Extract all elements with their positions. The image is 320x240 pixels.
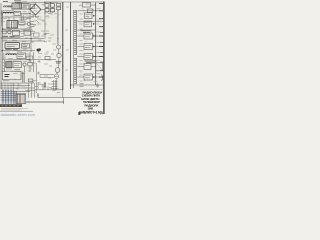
transformer core xyxy=(73,10,75,88)
value labels right column xyxy=(94,9,101,82)
dark label rows xyxy=(2,36,18,49)
resistor R4 xyxy=(3,30,7,34)
hatch marks xyxy=(51,80,59,90)
winding W1 xyxy=(74,10,76,55)
choke L5 xyxy=(44,82,46,89)
secondary vertical xyxy=(70,2,72,89)
dense terminal block bottom-left xyxy=(1,89,26,104)
inductor L2 xyxy=(6,54,16,55)
label smudges scattered xyxy=(2,1,83,92)
header label right xyxy=(81,31,92,33)
module A7 long box xyxy=(3,71,22,80)
label xyxy=(39,84,45,86)
wire xyxy=(57,10,60,45)
box A5 hatched xyxy=(6,62,12,68)
transformer T2 xyxy=(7,21,18,29)
resistor R7 xyxy=(28,79,33,82)
box A1 xyxy=(13,30,20,35)
capacitor C6 xyxy=(50,8,54,11)
box D4 xyxy=(84,33,93,39)
label xyxy=(19,18,30,20)
switch SA1 xyxy=(30,15,39,24)
inductor L1 xyxy=(3,12,13,13)
caption underline xyxy=(0,110,33,112)
pin lines xyxy=(1,90,3,104)
wire row2 xyxy=(78,21,105,23)
box U1 xyxy=(22,4,30,10)
wire xyxy=(29,2,46,17)
mains label xyxy=(31,25,37,27)
wire row mid xyxy=(35,89,63,91)
tube VL1 xyxy=(55,68,60,73)
label xyxy=(4,53,6,59)
lamp H3 xyxy=(23,63,26,66)
twisted pair xyxy=(3,60,5,72)
input coil L4 xyxy=(4,6,13,7)
wire row3 xyxy=(78,29,96,31)
caption text xyxy=(1,109,28,111)
wire xyxy=(3,14,34,60)
box texts xyxy=(15,5,28,56)
lamp H2 xyxy=(8,30,11,33)
resistor R8 xyxy=(27,56,33,59)
wire pair down from lamp row xyxy=(22,14,24,21)
plus labels xyxy=(44,2,51,13)
wire row xyxy=(1,37,44,39)
connector box xyxy=(16,94,26,103)
diode marks xyxy=(93,15,95,78)
transistor VT2 xyxy=(57,53,61,57)
box A3 xyxy=(5,43,20,49)
label w marks xyxy=(80,14,83,75)
resistor R1 xyxy=(30,4,34,8)
ink blob xyxy=(36,48,41,51)
svg-text:dataradio-sxem.com: dataradio-sxem.com xyxy=(1,113,35,117)
box A2 xyxy=(24,30,31,35)
box text details xyxy=(85,4,91,78)
label xyxy=(3,9,14,11)
box D2 xyxy=(85,13,93,19)
yoke brace xyxy=(102,75,103,82)
wire row xyxy=(2,59,56,61)
capacitor C3 xyxy=(45,8,49,11)
wire xyxy=(46,2,58,13)
box D5 xyxy=(84,44,93,50)
wire row xyxy=(1,30,35,32)
wire row bottom xyxy=(71,84,104,86)
winding W2 xyxy=(74,58,76,84)
wire xyxy=(20,2,46,9)
box F1 xyxy=(14,11,21,15)
box A4 xyxy=(17,53,26,59)
label top-left text xyxy=(3,1,22,2)
box K1 xyxy=(19,21,26,24)
ink speck xyxy=(78,112,80,115)
extra labels mid xyxy=(38,31,54,57)
resistor R2 xyxy=(57,4,61,7)
label plus marks xyxy=(37,50,41,75)
resistor R6 xyxy=(28,63,32,66)
box D3 xyxy=(84,21,92,27)
caption band xyxy=(0,104,22,107)
capacitor C1 xyxy=(45,4,49,8)
wire pair to tubes xyxy=(40,75,54,78)
capacitor C4 xyxy=(44,10,47,40)
junction dots xyxy=(2,10,96,85)
box D8 xyxy=(84,74,93,80)
bridge rectifier VD1 xyxy=(30,4,41,15)
lamp H1 xyxy=(27,22,30,25)
step wire xyxy=(38,90,81,104)
tick row xyxy=(80,84,84,87)
extra labels under diamond xyxy=(37,19,45,21)
wires horizontal xyxy=(1,92,31,101)
box D7 xyxy=(84,64,91,70)
box D1 xyxy=(83,3,91,8)
arrow terminal xyxy=(37,93,39,98)
wire xyxy=(25,52,34,72)
collector line xyxy=(57,10,59,90)
right bus xyxy=(95,3,97,86)
box A6 xyxy=(13,62,22,68)
label xyxy=(14,30,34,37)
main bus vertical xyxy=(62,2,64,90)
wire xyxy=(1,39,35,52)
terminal arrows right edge xyxy=(99,3,103,77)
label cluster dark xyxy=(85,61,97,63)
label marks extra xyxy=(23,12,35,58)
node ticks xyxy=(38,82,48,90)
tube VL2 xyxy=(54,74,59,79)
wire row xyxy=(2,31,45,41)
wire row1 xyxy=(78,5,105,11)
box A8 xyxy=(34,33,40,37)
capacitor C5 xyxy=(96,83,99,87)
resistor R5 xyxy=(22,44,30,49)
title block xyxy=(79,90,104,115)
svg-text:БИБЛИОТ+1 Мд: БИБЛИОТ+1 Мд xyxy=(79,110,102,114)
diode VD2 xyxy=(87,9,93,12)
wire rows lower-left mesh xyxy=(1,83,36,91)
meter P1 crossed box xyxy=(96,63,103,71)
wire vertical mid xyxy=(36,63,38,93)
transistor VT1 xyxy=(57,45,61,49)
resistor R3 xyxy=(57,7,61,10)
mesh drops xyxy=(2,83,35,98)
resistor R9 xyxy=(45,56,50,59)
transformer T1 xyxy=(12,3,21,9)
capacitor C2 xyxy=(50,4,54,8)
choke L3 hatched pair xyxy=(23,72,25,83)
plug X2 xyxy=(1,10,3,26)
wire row xyxy=(3,16,34,18)
wire xyxy=(1,14,31,30)
extra terminal stubs xyxy=(100,33,104,71)
extra labels lower mid xyxy=(28,61,52,88)
box D6 xyxy=(84,54,93,60)
